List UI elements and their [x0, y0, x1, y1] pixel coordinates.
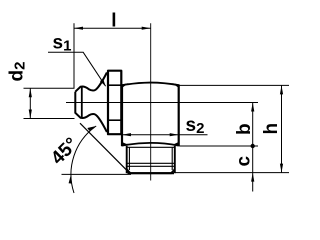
wire: l dimension line [74, 27, 151, 29]
node: body block left/right edges [121, 85, 123, 146]
node: d2 bottom arrow [29, 110, 32, 119]
wire: s1 leader [48, 52, 106, 86]
node: body bottom corner wedges [121, 142, 179, 147]
svg-text:d2: d2 [7, 62, 29, 82]
node: hex face lines [107, 84, 122, 86]
wire: d2 dimension line [29, 88, 31, 118]
wire: h dimension line [281, 85, 283, 172]
wire: bottom extension line (stud bottom) [175, 172, 289, 174]
node: s2 right arrow [170, 133, 179, 136]
wire: c top extension line [180, 145, 259, 147]
svg-text:s2: s2 [186, 115, 205, 137]
node: angle arc top arrow [87, 126, 96, 131]
wire: d2 bottom extension line [24, 118, 75, 120]
node: body top corner wedges [121, 83, 179, 88]
wire: 45 degree angle extension line (horizontal) [62, 173, 132, 175]
node: head hex s1 [108, 71, 121, 135]
node: h top arrow [280, 85, 283, 94]
wire: head horizontal centerline [66, 102, 258, 104]
wire: b and c dimension line [252, 103, 254, 192]
node: angle arc bottom arrow [69, 174, 72, 183]
node: h bottom arrow [280, 164, 283, 173]
wire: body vertical centerline (also l right extension) [150, 23, 152, 180]
node: l left arrow [74, 27, 83, 30]
node: stud bottom edge with chamfers [127, 169, 175, 173]
node: ball tip inner edge [81, 86, 83, 118]
node: nipple ball head outline [75, 73, 107, 133]
wire: l left extension line [73, 23, 75, 88]
svg-text:45°: 45° [47, 134, 82, 169]
node: b/c boundary dot [251, 144, 255, 148]
node: s2 left arrow [122, 133, 131, 136]
node: c bottom arrow (below line pointing up) [251, 173, 254, 182]
svg-text:c: c [234, 156, 255, 167]
svg-text:h: h [261, 123, 282, 135]
node: body top arc [122, 83, 179, 86]
node: threaded stud outline [126, 146, 128, 173]
node: stud thread minor lines [128, 147, 130, 170]
wire: 45 degree construction line [80, 123, 128, 172]
svg-text:s1: s1 [53, 33, 72, 55]
wire: h top extension line [180, 84, 290, 86]
node: b top arrow [251, 103, 254, 112]
svg-text:b: b [234, 123, 255, 135]
wire: d2 top extension line [24, 87, 75, 89]
node: d2 top arrow [29, 88, 32, 97]
node: s1 leader arrowhead [100, 79, 106, 86]
wire: angular dimension arc [71, 126, 96, 193]
wire: s2 dimension line [122, 134, 208, 136]
svg-text:l: l [111, 11, 116, 32]
node: l right arrow [142, 27, 151, 30]
node: stud thread end lines [127, 162, 174, 164]
node: body bottom arc [122, 143, 179, 146]
